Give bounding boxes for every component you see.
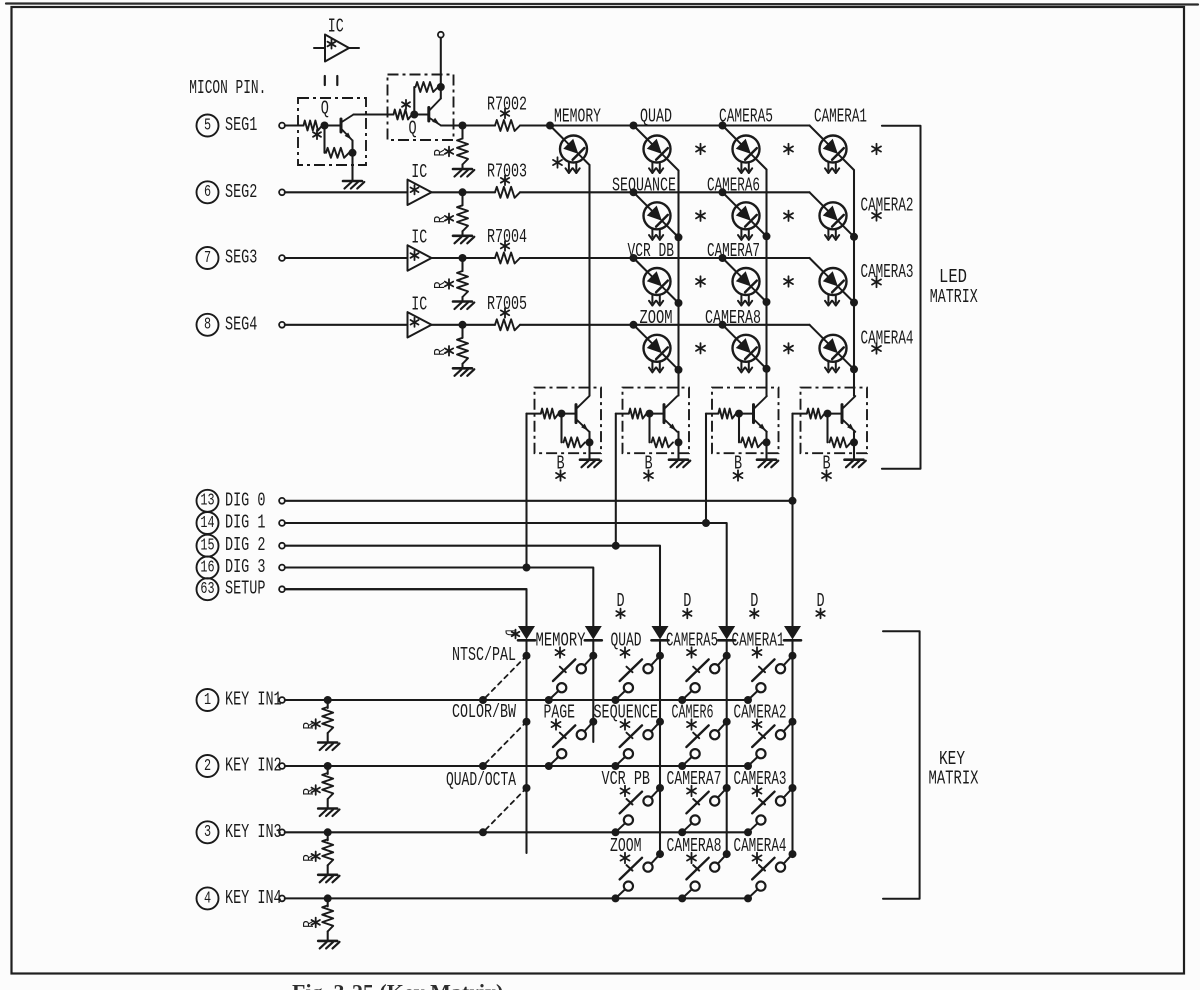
terminal SEG1 [279, 123, 285, 129]
key NTSC/PAL (dashed) [483, 656, 527, 700]
LED CAMERA7 [733, 268, 760, 306]
junction col4 row2 [850, 233, 858, 241]
label key QUAD/OCTA [446, 769, 516, 791]
wire emitter B4 [853, 432, 855, 443]
junction key col MEMORY [589, 652, 597, 660]
resistor SEG4 pulldown [457, 338, 468, 364]
wire emitter B4 to ground [853, 442, 855, 459]
svg-text:CAMERA2: CAMERA2 [861, 194, 914, 216]
wire feedback B1 [560, 414, 562, 443]
asterisk key CAMERA7 [687, 786, 696, 796]
wire cathode LED CAMERA6 [756, 225, 767, 236]
LED CAMERA1 [820, 136, 847, 174]
svg-text:CAMERA2: CAMERA2 [734, 701, 787, 723]
svg-text:CAMERA8: CAMERA8 [705, 307, 761, 329]
terminal SETUP [279, 586, 285, 592]
label R KEY IN4 [302, 920, 318, 928]
equivalence marks [325, 76, 338, 85]
asterisk D key diode [816, 609, 824, 619]
asterisk R7003 [501, 176, 509, 186]
svg-text:KEY IN2: KEY IN2 [225, 754, 282, 776]
wire KEY IN1 pulldown lead [327, 700, 329, 708]
wire SEG4 input [285, 324, 408, 326]
label key CAMERA3 [734, 768, 787, 790]
terminal KEY IN2 [279, 763, 285, 769]
ground B4 [845, 460, 866, 468]
junction key col CAMERA7 [723, 784, 731, 792]
junction key line QUAD [612, 696, 620, 704]
transistor block B1 outline [535, 388, 602, 454]
pin 5 SEG1 [197, 114, 258, 137]
transistor block B4 outline [801, 388, 868, 454]
key QUAD/OCTA (dashed) [483, 788, 527, 832]
svg-text:DIG 0: DIG 0 [225, 489, 265, 511]
svg-text:VCR DB: VCR DB [628, 240, 675, 262]
transistor B1 [576, 396, 589, 432]
wire base B4 to bar [828, 413, 843, 415]
terminal Q2 supply [438, 32, 444, 38]
transistor block Q1 outline [298, 97, 366, 165]
resistor feedback B3 [741, 437, 763, 447]
junction key col CAMERA2 [789, 718, 797, 726]
junction SEG1 row col [630, 122, 638, 130]
asterisk Q1 base resistor [313, 130, 321, 139]
wire DIG 2 to key column [616, 546, 660, 626]
asterisk LED CAMERA2 [872, 210, 881, 220]
junction emitter B4 [850, 438, 858, 446]
junction key col QUAD [656, 652, 664, 660]
junction key col PAGE [589, 718, 597, 726]
junction DIG 0 riser [789, 497, 797, 505]
junction key line CAMERA8 [678, 894, 686, 902]
svg-text:1: 1 [204, 691, 211, 710]
asterisk LED matrix [784, 276, 793, 286]
label R pulldown SEG3 [433, 281, 449, 289]
svg-text:CAMERA3: CAMERA3 [734, 768, 787, 790]
switch CAMER6 [682, 722, 727, 766]
asterisk key VCR PB [621, 786, 630, 796]
switch PAGE [549, 722, 594, 766]
svg-text:SEG3: SEG3 [225, 246, 257, 268]
terminal SEG4 [279, 322, 285, 328]
svg-text:IC: IC [411, 227, 427, 249]
wire SEG4 row [520, 324, 810, 326]
LED CAMERA6 [733, 202, 760, 240]
label MICON PIN. [189, 77, 266, 99]
LED CAMERA8 [733, 335, 760, 373]
resistor base B4 [807, 409, 825, 419]
wire DIG 3 [285, 566, 527, 568]
wire emitter B2 to ground [677, 442, 679, 459]
terminal SEG2 [279, 189, 285, 195]
label LED CAMERA7 [707, 240, 760, 262]
diode D QUAD col [652, 626, 669, 640]
resistor Q1 feedback [326, 148, 349, 158]
wire key column 4 [726, 641, 728, 857]
wire anode LED CAMERA4 [810, 325, 824, 339]
wire Q1 emitter [351, 141, 353, 153]
junction key line ZOOM [612, 894, 620, 902]
asterisk R pulldown SEG4 [445, 346, 453, 356]
LED VCR DB [644, 268, 671, 306]
wire LED column 1 [588, 165, 590, 396]
terminal KEY IN4 [279, 896, 285, 902]
junction SEG3 node [459, 254, 467, 262]
asterisk R7005 [501, 308, 509, 318]
pin 63 SETUP [197, 578, 266, 601]
LED CAMERA3 [820, 268, 847, 306]
switch CAMERA8 [682, 854, 727, 898]
label B2 [644, 452, 652, 474]
wire SEG1 pulldown [461, 126, 463, 139]
label D first diode [501, 630, 519, 639]
label D key diode [816, 590, 824, 612]
label key ZOOM [610, 835, 642, 857]
transistor B4 [842, 396, 855, 432]
wire Q1 emitter to ground [351, 153, 353, 181]
label LED CAMERA8 [705, 307, 761, 329]
wire SEG1 row [520, 124, 810, 126]
wire SEG4 node to R7005 [463, 324, 496, 326]
svg-text:PAGE: PAGE [544, 701, 576, 723]
wire KEY IN2 pulldown lead [327, 766, 329, 774]
label key CAMERA8 [667, 835, 722, 857]
wire Q2 emitter to SEG1 node [441, 124, 463, 126]
resistor KEY IN3 pulldown [322, 839, 333, 865]
wire base B3 to bar [739, 413, 754, 415]
junction col4 row4 [850, 365, 858, 373]
label key COLOR/BW [452, 701, 516, 723]
svg-text:2: 2 [204, 757, 211, 776]
resistor Q2 collector feedback [416, 82, 439, 92]
label key CAMERA7 [667, 768, 722, 790]
asterisk B4 [822, 470, 831, 480]
resistor Q1 base [304, 121, 323, 131]
transistor block B2 outline [623, 388, 690, 454]
label D key diode [750, 590, 758, 612]
ground B1 [580, 460, 601, 468]
svg-text:KEY IN4: KEY IN4 [225, 887, 282, 909]
asterisk D key diode [683, 609, 691, 619]
junction emitter B3 [763, 438, 771, 446]
switch CAMERA4 [748, 854, 793, 898]
bracket LED MATRIX [882, 126, 921, 469]
terminal SEG3 [279, 255, 285, 261]
svg-text:CAMERA5: CAMERA5 [719, 105, 773, 127]
label B4 [822, 452, 830, 474]
junction key col1 row1 [523, 652, 531, 660]
label D key diode [616, 590, 624, 612]
switch CAMERA2 [748, 722, 793, 766]
asterisk B2 [644, 470, 653, 480]
junction key line MEMORY [545, 696, 553, 704]
wire KEY IN1 pulldown to ground [327, 733, 329, 742]
wire KEY IN3 pulldown to ground [327, 865, 329, 874]
svg-text:SEQUANCE: SEQUANCE [612, 174, 676, 196]
label LED CAMERA1 [814, 105, 867, 127]
switch CAMERA3 [748, 788, 793, 832]
wire SEG3 input [285, 257, 408, 259]
resistor SEG3 pulldown [457, 271, 468, 297]
LED CAMERA5 [733, 136, 760, 174]
junction SEG4 row col [630, 321, 638, 329]
junction key line QUAD/OCTA [479, 828, 487, 836]
junction key col CAMERA4 [789, 850, 797, 858]
wire KEY IN2 [285, 765, 748, 767]
asterisk LED matrix [696, 276, 705, 286]
label LED CAMERA5 [719, 105, 773, 127]
svg-text:Fig. 3-25 (Key Matrix): Fig. 3-25 (Key Matrix) [292, 980, 503, 990]
wire LED column 4 [853, 170, 855, 395]
wire cathode LED CAMERA1 [843, 159, 855, 171]
transistor block B3 outline [712, 388, 779, 454]
wire SETUP to key column [285, 589, 527, 626]
junction SEG3 row col [630, 254, 638, 262]
wire SETUP [285, 588, 527, 590]
junction KEY IN1 pulldown [324, 696, 332, 704]
resistor Q2 base [394, 110, 413, 120]
svg-text:CAMERA1: CAMERA1 [814, 105, 867, 127]
switch CAMERA1 [748, 656, 793, 700]
asterisk R7004 [501, 241, 509, 251]
wire anode LED CAMERA7 [723, 258, 737, 272]
wire anode LED CAMERA3 [810, 258, 824, 272]
resistor KEY IN4 pulldown [322, 905, 333, 931]
junction emitter B2 [675, 438, 683, 446]
switch SEQUENCE [616, 722, 661, 766]
label key NTSC/PAL [452, 644, 516, 666]
svg-text:13: 13 [200, 492, 214, 511]
junction key col1 row3 [523, 784, 531, 792]
wire cathode LED VCR DB [667, 291, 679, 303]
svg-text:QUAD/OCTA: QUAD/OCTA [446, 769, 516, 791]
op-amp IC buffer SEG2 [408, 161, 432, 205]
junction col2 row4 [675, 366, 683, 374]
wire DIG 1 to key column [706, 523, 727, 626]
svg-text:SEG1: SEG1 [225, 114, 257, 136]
wire Q1 feedback [323, 126, 325, 153]
ground KEY IN2 [318, 809, 339, 817]
wire Q1 base [325, 124, 342, 126]
asterisk R KEY IN2 [312, 785, 320, 795]
resistor feedback B1 [564, 437, 586, 447]
wire base B2 [616, 413, 629, 415]
ground KEY IN4 [318, 941, 339, 949]
svg-text:CAMERA8: CAMERA8 [667, 835, 722, 857]
svg-text:16: 16 [200, 559, 214, 578]
resistor KEY IN1 pulldown [322, 707, 333, 733]
wire SEG1 node to R7002 [463, 124, 496, 126]
wire feedback B2 [648, 414, 650, 443]
svg-text:15: 15 [200, 537, 214, 556]
wire anode LED CAMERA1 [810, 126, 824, 140]
junction base B3 [735, 410, 743, 418]
ground B3 [757, 460, 778, 468]
asterisk R KEY IN1 [312, 719, 320, 729]
junction key line CAMERA3 [744, 828, 752, 836]
svg-text:QUAD: QUAD [611, 629, 642, 651]
pin 15 DIG 2 [197, 534, 266, 557]
asterisk B3 [734, 470, 743, 480]
terminal DIG 3 [279, 565, 285, 571]
junction col3 row3 [763, 298, 771, 306]
label KEY MATRIX [929, 748, 979, 789]
switch CAMERA5 [682, 656, 727, 700]
asterisk key CAMERA5 [687, 647, 696, 657]
resistor base B2 [629, 409, 647, 419]
wire SEG2 pulldown [461, 192, 463, 205]
wire SEG3 pulldown [461, 258, 463, 271]
ground KEY IN1 [318, 743, 339, 751]
junction base B1 [558, 410, 566, 418]
asterisk B1 [556, 470, 565, 480]
terminal KEY IN3 [279, 829, 285, 835]
pin 4 KEY IN4 [197, 887, 282, 910]
asterisk R pulldown SEG1 [445, 147, 453, 157]
svg-text:IC: IC [411, 293, 427, 315]
junction Q1 base node [321, 122, 329, 130]
LED SEQUANCE [644, 202, 671, 240]
wire emitter B2 [677, 432, 679, 443]
label LED QUAD [640, 105, 672, 127]
label R pulldown SEG1 [433, 149, 449, 157]
svg-text:14: 14 [200, 514, 214, 533]
asterisk key CAMERA3 [753, 786, 762, 796]
junction key line CAMERA1 [744, 696, 752, 704]
asterisk key PAGE [552, 719, 561, 729]
label key CAMER6 [672, 701, 714, 723]
terminal DIG 0 [279, 498, 285, 504]
transistor block Q2 outline [388, 75, 454, 141]
junction SEG4 node [459, 321, 467, 329]
ground SEG1 pulldown [453, 169, 474, 177]
junction key col SEQUENCE [656, 718, 664, 726]
wire Q2 supply [440, 38, 442, 99]
svg-text:MICON PIN.: MICON PIN. [189, 77, 266, 99]
wire DIG 0 to key column [791, 501, 793, 626]
wire SEG4 pulldown [461, 325, 463, 338]
label R KEY IN2 [302, 788, 318, 796]
junction key line VCR PB [612, 828, 620, 836]
terminal DIG 1 [279, 520, 285, 526]
junction col4 row3 [850, 299, 858, 307]
LED ZOOM [644, 335, 671, 373]
junction Q2 base node [410, 111, 418, 119]
wire cathode LED CAMERA5 [756, 159, 767, 170]
label LED CAMERA4 [861, 327, 914, 349]
pin 8 SEG4 [197, 313, 258, 336]
junction DIG 2 riser [612, 542, 620, 550]
wire KEY IN4 [285, 897, 748, 899]
ground Q1 [343, 181, 364, 189]
label B1 [556, 452, 564, 474]
svg-text:CAMERA7: CAMERA7 [707, 240, 760, 262]
ground SEG2 pulldown [453, 236, 474, 244]
label LED SEQUANCE [612, 174, 676, 196]
wire SEG2 pulldown to ground [461, 231, 463, 235]
svg-text:CAMERA3: CAMERA3 [861, 261, 914, 283]
junction base B2 [646, 410, 654, 418]
asterisk key CAMERA2 [753, 719, 762, 729]
wire feedback B4 [826, 414, 828, 443]
LED QUAD [644, 136, 671, 174]
junction Q1 emitter node [349, 149, 357, 157]
pin 6 SEG2 [197, 181, 258, 204]
pin 14 DIG 1 [197, 511, 266, 534]
label R KEY IN3 [302, 854, 318, 862]
asterisk key CAMERA8 [687, 853, 696, 863]
asterisk LED matrix [784, 144, 793, 154]
svg-text:MATRIX: MATRIX [930, 286, 978, 308]
asterisk key SEQUENCE [621, 719, 630, 729]
wire cathode LED MEMORY [583, 159, 590, 166]
wire anode LED CAMERA2 [810, 192, 824, 206]
svg-text:MATRIX: MATRIX [929, 767, 979, 789]
asterisk key QUAD [621, 647, 630, 657]
wire key column 5 [791, 641, 793, 857]
resistor feedback B2 [652, 437, 674, 447]
resistor R7002 [495, 120, 520, 131]
wire LED column 3 [765, 170, 767, 396]
ground KEY IN3 [318, 875, 339, 883]
wire SEG3 pulldown to ground [461, 297, 463, 301]
pin 2 KEY IN2 [197, 754, 282, 777]
junction SEG2 row col [719, 188, 727, 196]
resistor R7003 [495, 187, 520, 198]
wire cathode LED QUAD [667, 159, 679, 171]
label LED MATRIX [930, 266, 978, 308]
svg-text:63: 63 [200, 580, 214, 599]
wire anode LED MEMORY [550, 126, 564, 140]
key COLOR/BW (dashed) [483, 722, 527, 766]
wire SEG1 pulldown to ground [461, 165, 463, 169]
wire SEG2 buffer output [432, 191, 463, 193]
transistor Q2 [429, 99, 441, 126]
label LED CAMERA3 [861, 261, 914, 283]
wire emitter B3 [765, 432, 767, 443]
svg-text:CAMERA4: CAMERA4 [861, 327, 914, 349]
wire KEY IN2 pulldown to ground [327, 799, 329, 808]
pin 7 SEG3 [197, 246, 258, 269]
pin 16 DIG 3 [197, 556, 266, 579]
label R KEY IN1 [302, 722, 318, 730]
svg-text:DIG 2: DIG 2 [225, 534, 265, 556]
wire base B2 to bar [650, 413, 665, 415]
asterisk key CAMERA1 [753, 647, 762, 657]
wire cathode LED CAMERA2 [843, 225, 855, 237]
resistor R7004 [495, 253, 520, 264]
junction col2 row3 [675, 299, 683, 307]
terminal KEY IN1 [279, 697, 285, 703]
wire key column 3 [659, 641, 661, 857]
label key VCR PB [602, 768, 651, 790]
svg-text:QUAD: QUAD [640, 105, 672, 127]
label R7005 [487, 293, 527, 315]
wire cathode LED CAMERA4 [843, 358, 855, 370]
junction key line CAMERA5 [678, 696, 686, 704]
junction key line CAMER6 [678, 762, 686, 770]
junction key line CAMERA4 [744, 894, 752, 902]
label key PAGE [544, 701, 576, 723]
junction key line CAMERA7 [678, 828, 686, 836]
wire anode LED VCR DB [634, 258, 648, 272]
wire cathode LED ZOOM [667, 358, 679, 370]
junction SEG1 node [459, 122, 467, 130]
asterisk key CAMERA4 [753, 853, 762, 863]
diode D MEMORY col [585, 626, 602, 640]
svg-text:COLOR/BW: COLOR/BW [452, 701, 516, 723]
junction DIG 1 riser [702, 519, 710, 527]
